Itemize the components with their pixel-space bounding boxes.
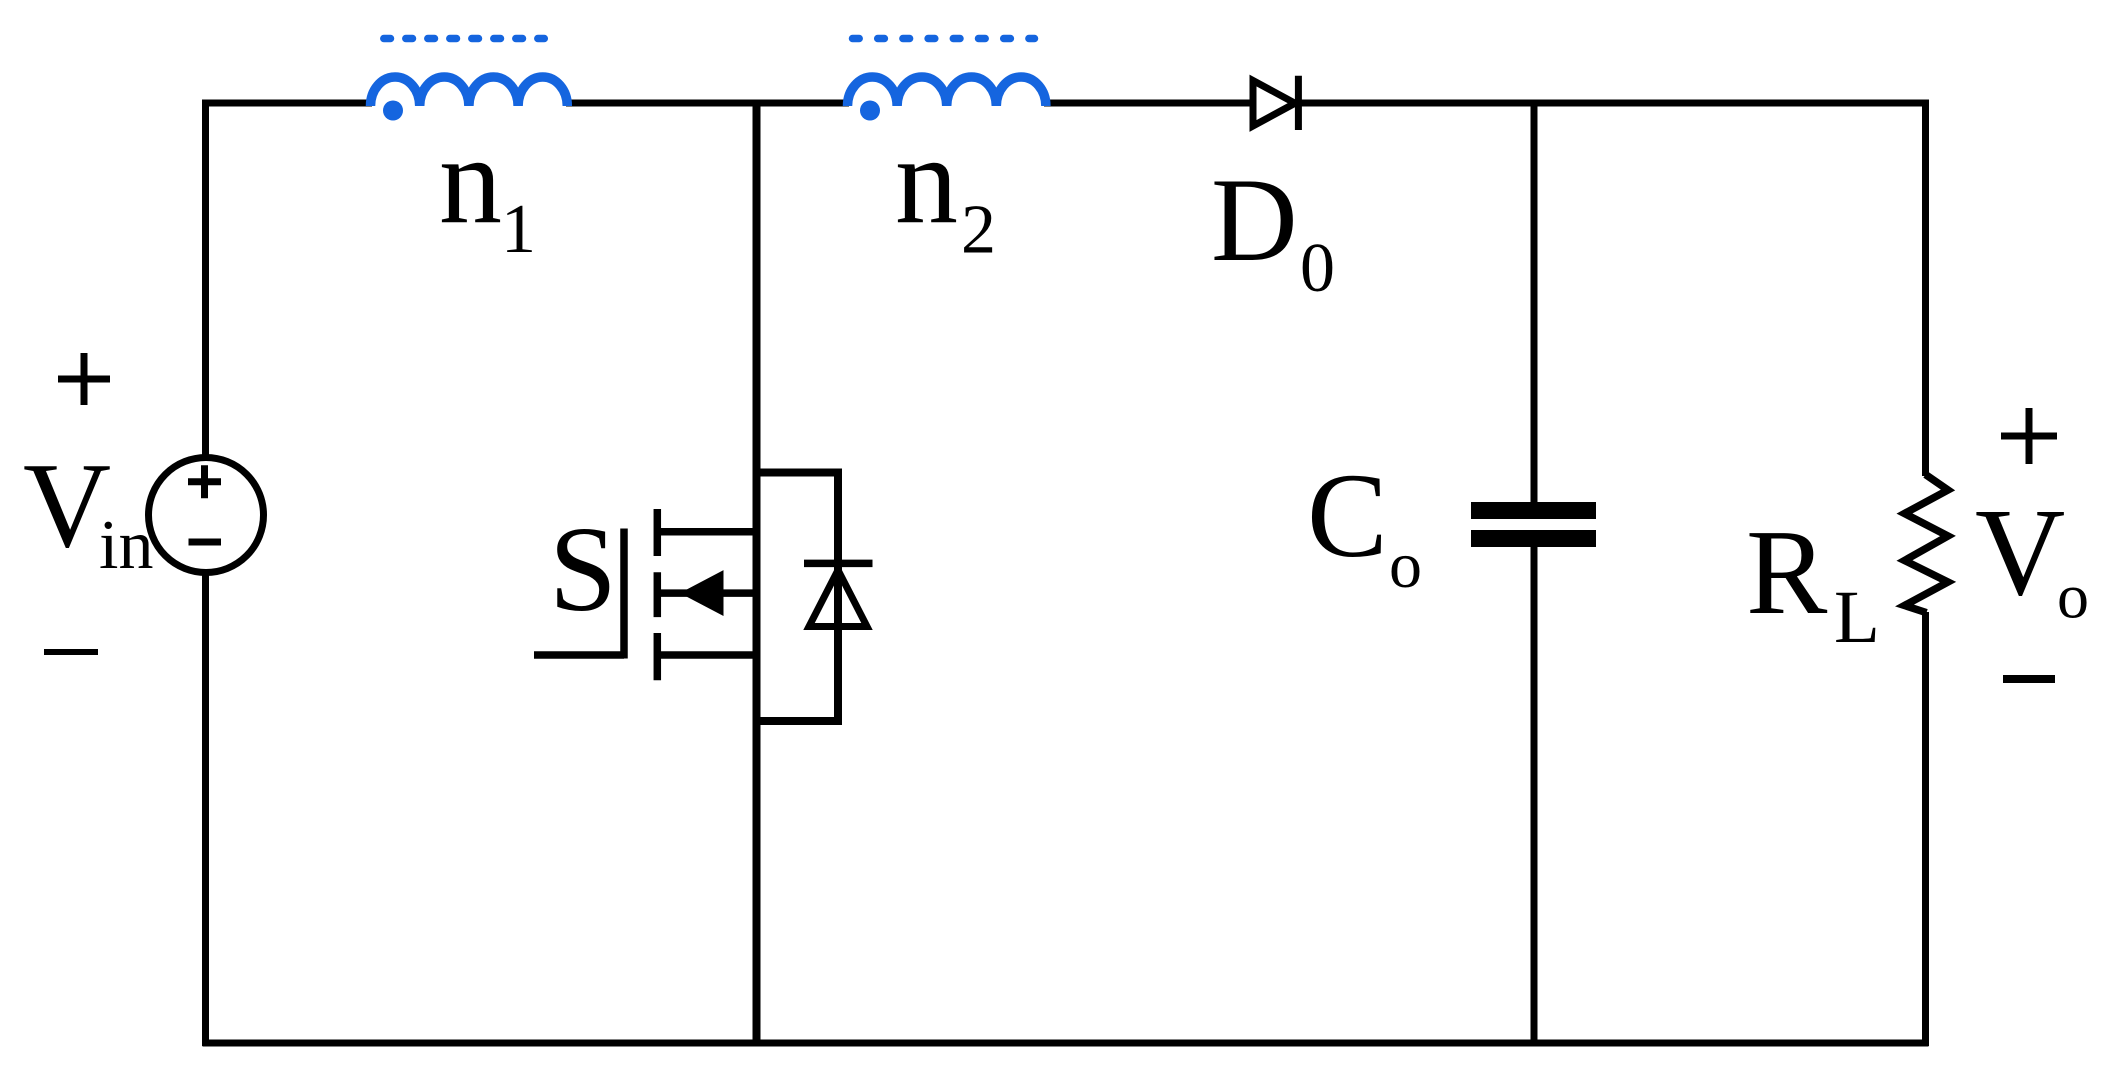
plus label above Vin	[58, 353, 110, 405]
source connection	[657, 651, 756, 659]
wire top-right (D0 to right corner)	[1299, 100, 1929, 107]
wire top (n2 to D0)	[1044, 100, 1251, 107]
wire right vertical lower	[1922, 612, 1929, 1046]
svg-text:L: L	[1834, 576, 1880, 659]
svg-text:S: S	[549, 502, 617, 637]
svg-text:V: V	[23, 438, 111, 573]
capacitor Co top plate	[1471, 502, 1596, 519]
body diode symbol	[804, 563, 873, 626]
svg-text:R: R	[1746, 505, 1828, 640]
plus sign inside Vin	[188, 465, 221, 498]
wire capacitor vertical upper	[1531, 100, 1538, 503]
transistor S (MOSFET)	[534, 509, 757, 680]
body diode branch rectangle	[757, 473, 839, 722]
svg-text:C: C	[1307, 449, 1388, 583]
inductor n2 polarity dot	[860, 101, 880, 121]
svg-text:n: n	[439, 112, 502, 251]
voltage source Vin circle	[149, 458, 264, 573]
inductor n1 dashed line	[384, 35, 545, 43]
minus label below Vin	[44, 649, 98, 655]
svg-text:V: V	[1975, 484, 2065, 622]
wire top middle (n1 to n2)	[566, 100, 849, 107]
wire right vertical upper	[1922, 100, 1929, 477]
resistor RL zigzag	[1905, 475, 1949, 613]
svg-text:D: D	[1211, 153, 1298, 286]
inductor n2 dashed line	[853, 35, 1035, 43]
gate lead	[534, 529, 624, 659]
svg-text:o: o	[2057, 561, 2089, 632]
wire left vertical upper	[202, 100, 209, 458]
wire capacitor vertical lower	[1531, 547, 1538, 1043]
minus sign inside Vin	[189, 539, 222, 546]
inductor n1 polarity dot	[383, 101, 403, 121]
svg-text:n: n	[895, 112, 958, 251]
svg-text:in: in	[99, 507, 153, 584]
wire left vertical lower	[202, 573, 209, 1046]
svg-text:1: 1	[501, 191, 536, 268]
body arrow	[681, 571, 723, 615]
channel bar segments	[654, 509, 662, 680]
svg-text:o: o	[1389, 529, 1422, 602]
body connection	[657, 589, 756, 597]
wire top-left horizontal	[203, 100, 373, 107]
inductor n1 coil	[371, 77, 568, 106]
inductor n2 coil	[848, 77, 1046, 106]
minus label below Vo	[2003, 675, 2055, 683]
wire bottom horizontal	[203, 1040, 1929, 1047]
diode D0	[1253, 76, 1298, 130]
wire middle vertical (switch branch)	[753, 100, 761, 1044]
svg-text:2: 2	[961, 192, 996, 269]
capacitor Co bottom plate	[1471, 530, 1596, 547]
svg-text:0: 0	[1300, 230, 1335, 307]
drain connection	[657, 528, 756, 536]
plus label above Vo	[2001, 408, 2057, 464]
